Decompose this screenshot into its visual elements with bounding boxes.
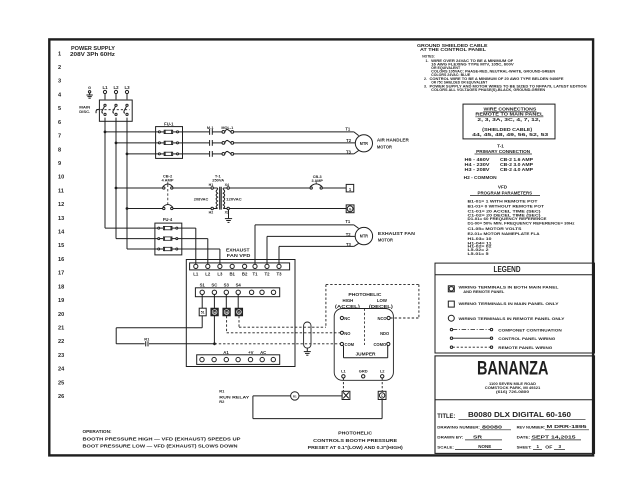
- svg-text:D1-00= 50% MIN. FREQUENCY REFE: D1-00= 50% MIN. FREQUENCY REFERENCE= 30H…: [468, 220, 575, 225]
- svg-text:OPERATION:: OPERATION:: [83, 429, 112, 434]
- svg-text:T2: T2: [346, 138, 352, 143]
- svg-text:16: 16: [58, 257, 64, 263]
- svg-text:(616) 726-0800: (616) 726-0800: [496, 390, 529, 394]
- svg-text:L1: L1: [341, 368, 346, 373]
- svg-text:SHEET:: SHEET:: [517, 444, 532, 449]
- svg-text:+V: +V: [248, 350, 254, 355]
- svg-text:2, 3, 3A, 3C, 4, 7, 12,: 2, 3, 3A, 3C, 4, 7, 12,: [477, 117, 541, 123]
- svg-text:T-1: T-1: [497, 144, 504, 149]
- svg-text:WIRING TERMINALS IN BOTH MAIN: WIRING TERMINALS IN BOTH MAIN PANEL: [459, 285, 560, 289]
- svg-text:R2: R2: [219, 399, 225, 404]
- svg-text:19: 19: [58, 298, 64, 304]
- svg-text:AIR HANDLER: AIR HANDLER: [377, 138, 410, 143]
- svg-text:PRIMARY CONNECTION: PRIMARY CONNECTION: [476, 149, 531, 154]
- svg-text:3: 3: [58, 79, 61, 85]
- svg-text:T1: T1: [345, 219, 351, 224]
- svg-text:T2: T2: [264, 271, 270, 276]
- svg-text:DRAWN BY:: DRAWN BY:: [437, 435, 463, 440]
- svg-text:CONTROL PANEL WIRING: CONTROL PANEL WIRING: [498, 337, 555, 341]
- svg-text:AT THE CONTROL PANEL: AT THE CONTROL PANEL: [420, 47, 486, 53]
- svg-text:B1: B1: [229, 271, 235, 276]
- svg-text:T1: T1: [345, 127, 351, 132]
- svg-text:5: 5: [58, 106, 61, 112]
- svg-text:WIRING TERMINALS IN MAIN PANEL: WIRING TERMINALS IN MAIN PANEL ONLY: [459, 302, 560, 306]
- svg-text:6: 6: [58, 120, 61, 126]
- svg-text:MTR: MTR: [360, 234, 368, 239]
- svg-text:H2: H2: [209, 211, 214, 215]
- svg-text:R1: R1: [144, 336, 150, 341]
- svg-text:BOOT PRESSURE LOW — VFD (EXHAU: BOOT PRESSURE LOW — VFD (EXHAUST) SLOWS …: [83, 444, 239, 449]
- svg-text:NONE: NONE: [478, 444, 491, 449]
- svg-text:2.: 2.: [424, 77, 427, 81]
- svg-text:18: 18: [58, 284, 64, 290]
- svg-text:VFD: VFD: [498, 185, 508, 190]
- svg-text:1: 1: [58, 51, 61, 57]
- svg-text:13: 13: [58, 216, 64, 222]
- svg-text:MTR: MTR: [360, 141, 368, 146]
- svg-text:TITLE:: TITLE:: [437, 413, 455, 420]
- svg-text:REV NUMBER:: REV NUMBER:: [517, 424, 546, 429]
- svg-text:L5-01= 5: L5-01= 5: [468, 251, 490, 256]
- svg-text:L2: L2: [205, 271, 211, 276]
- svg-text:H2 - COMMON: H2 - COMMON: [464, 175, 497, 180]
- svg-text:PRESET AT 0.1"(LOW) AND 0.3"(H: PRESET AT 0.1"(LOW) AND 0.3"(HIGH): [308, 445, 404, 450]
- svg-text:NO: NO: [344, 331, 351, 336]
- svg-text:12: 12: [58, 202, 64, 208]
- svg-text:REMOTE PANEL WIRING: REMOTE PANEL WIRING: [498, 346, 552, 350]
- svg-text:T3: T3: [276, 271, 282, 276]
- svg-text:L2: L2: [113, 85, 119, 90]
- svg-text:T3: T3: [346, 242, 352, 247]
- svg-text:S1: S1: [200, 283, 206, 288]
- svg-text:DISC.: DISC.: [79, 109, 90, 114]
- svg-text:24: 24: [58, 367, 65, 373]
- svg-text:FU-4: FU-4: [163, 217, 173, 222]
- svg-text:10: 10: [58, 175, 64, 181]
- svg-text:R1: R1: [219, 389, 225, 394]
- svg-text:COMO: COMO: [373, 342, 387, 347]
- svg-text:T1: T1: [252, 271, 258, 276]
- svg-text:9: 9: [58, 161, 61, 167]
- svg-text:NC: NC: [344, 316, 350, 321]
- svg-text:B0080 DLX DIGITAL 60-160: B0080 DLX DIGITAL 60-160: [468, 412, 571, 419]
- svg-text:PROGRAM PARAMETERS: PROGRAM PARAMETERS: [478, 190, 533, 195]
- svg-text:SCALE:: SCALE:: [437, 444, 454, 449]
- svg-text:DATE:: DATE:: [517, 435, 531, 440]
- svg-text:80080: 80080: [482, 424, 503, 429]
- svg-text:1: 1: [537, 444, 540, 449]
- svg-text:14: 14: [58, 230, 65, 236]
- svg-text:AND REMOTE PANEL: AND REMOTE PANEL: [463, 290, 505, 294]
- svg-text:T2: T2: [346, 232, 352, 237]
- svg-text:H3 - 208V: H3 - 208V: [465, 167, 490, 172]
- svg-text:BOOTH PRESSURE HIGH — VFD (EXH: BOOTH PRESSURE HIGH — VFD (EXHAUST) SPEE…: [83, 436, 241, 441]
- svg-text:44, 45, 48, 49, 56, 52, 53: 44, 45, 48, 49, 56, 52, 53: [472, 132, 548, 138]
- svg-text:26: 26: [58, 394, 64, 400]
- svg-text:PHOTOHELIC: PHOTOHELIC: [338, 431, 373, 436]
- svg-text:208VAC: 208VAC: [194, 196, 209, 201]
- svg-text:MOTOR: MOTOR: [377, 145, 393, 150]
- svg-text:R1: R1: [293, 394, 297, 398]
- svg-text:CONTROLS BOOTH PRESSURE: CONTROLS BOOTH PRESSURE: [313, 438, 397, 443]
- svg-text:EXHAUST FAN: EXHAUST FAN: [378, 231, 416, 236]
- svg-text:T3: T3: [346, 150, 352, 155]
- svg-text:120VAC: 120VAC: [226, 196, 242, 201]
- svg-text:L2: L2: [380, 368, 385, 373]
- svg-text:S3: S3: [224, 283, 230, 288]
- svg-text:COM: COM: [345, 342, 355, 347]
- svg-text:FAN VFD: FAN VFD: [227, 253, 251, 258]
- svg-text:SEPT 14,2015: SEPT 14,2015: [532, 434, 576, 440]
- svg-text:51: 51: [201, 311, 205, 315]
- svg-text:15: 15: [58, 243, 64, 249]
- svg-text:23: 23: [58, 353, 64, 359]
- svg-text:250VA: 250VA: [212, 178, 224, 183]
- svg-text:FU-1: FU-1: [164, 122, 174, 127]
- svg-text:3.: 3.: [424, 84, 427, 88]
- svg-text:EXHAUST: EXHAUST: [226, 247, 250, 252]
- svg-text:B2: B2: [242, 271, 248, 276]
- svg-text:COLORS ALL VOLTAGES PHASE(S)-B: COLORS ALL VOLTAGES PHASE(S)-BLACK, GROU…: [431, 88, 546, 92]
- svg-text:M DRR-1895: M DRR-1895: [547, 424, 587, 430]
- svg-text:22: 22: [58, 339, 64, 345]
- svg-text:25: 25: [58, 380, 64, 386]
- svg-text:SR: SR: [473, 434, 483, 439]
- svg-text:7: 7: [58, 134, 61, 140]
- svg-text:21: 21: [58, 326, 64, 332]
- svg-text:1.: 1.: [426, 59, 429, 63]
- svg-text:3: 3: [559, 444, 562, 449]
- svg-text:8: 8: [58, 147, 61, 153]
- svg-text:56: 56: [213, 310, 217, 314]
- svg-text:S4: S4: [236, 283, 242, 288]
- svg-text:HIGH: HIGH: [343, 298, 354, 303]
- svg-text:3 AMP: 3 AMP: [311, 179, 323, 183]
- svg-text:NOTES:: NOTES:: [422, 55, 435, 59]
- svg-text:20: 20: [58, 312, 64, 318]
- svg-text:LEGEND: LEGEND: [494, 265, 521, 274]
- svg-text:WIRING TERMINALS IN REMOTE PAN: WIRING TERMINALS IN REMOTE PANEL ONLY: [459, 317, 566, 321]
- svg-text:OF: OF: [545, 444, 553, 449]
- svg-text:G: G: [349, 208, 352, 212]
- svg-text:CB-2 4.0 AMP: CB-2 4.0 AMP: [500, 167, 533, 172]
- svg-text:G: G: [88, 85, 91, 90]
- svg-text:NCO: NCO: [377, 316, 387, 321]
- svg-text:L1: L1: [102, 85, 108, 90]
- svg-text:MOTOR: MOTOR: [378, 238, 394, 243]
- svg-text:DRAWING NUMBER:: DRAWING NUMBER:: [437, 424, 480, 429]
- svg-text:208V 3Ph 60Hz: 208V 3Ph 60Hz: [70, 52, 116, 58]
- svg-text:53: 53: [237, 310, 241, 314]
- svg-text:AC: AC: [260, 350, 266, 355]
- svg-text:4 AMP: 4 AMP: [161, 178, 173, 183]
- svg-text:17: 17: [58, 271, 64, 277]
- svg-text:JUMPER: JUMPER: [356, 352, 376, 357]
- svg-text:A1: A1: [223, 350, 229, 355]
- svg-text:PHOTOHELIC: PHOTOHELIC: [348, 292, 381, 297]
- svg-text:SC: SC: [211, 283, 217, 288]
- svg-text:BANANZA: BANANZA: [477, 358, 549, 379]
- svg-text:GRD: GRD: [359, 368, 368, 373]
- svg-text:NDO: NDO: [380, 331, 390, 336]
- svg-text:L3: L3: [124, 85, 130, 90]
- svg-text:2: 2: [58, 65, 61, 71]
- svg-text:L1: L1: [193, 271, 199, 276]
- svg-text:L3: L3: [217, 271, 223, 276]
- svg-text:LOW: LOW: [377, 298, 388, 303]
- svg-text:58: 58: [225, 310, 229, 314]
- svg-text:COMPONET CONTINUATION: COMPONET CONTINUATION: [498, 328, 562, 332]
- svg-text:11: 11: [58, 188, 64, 194]
